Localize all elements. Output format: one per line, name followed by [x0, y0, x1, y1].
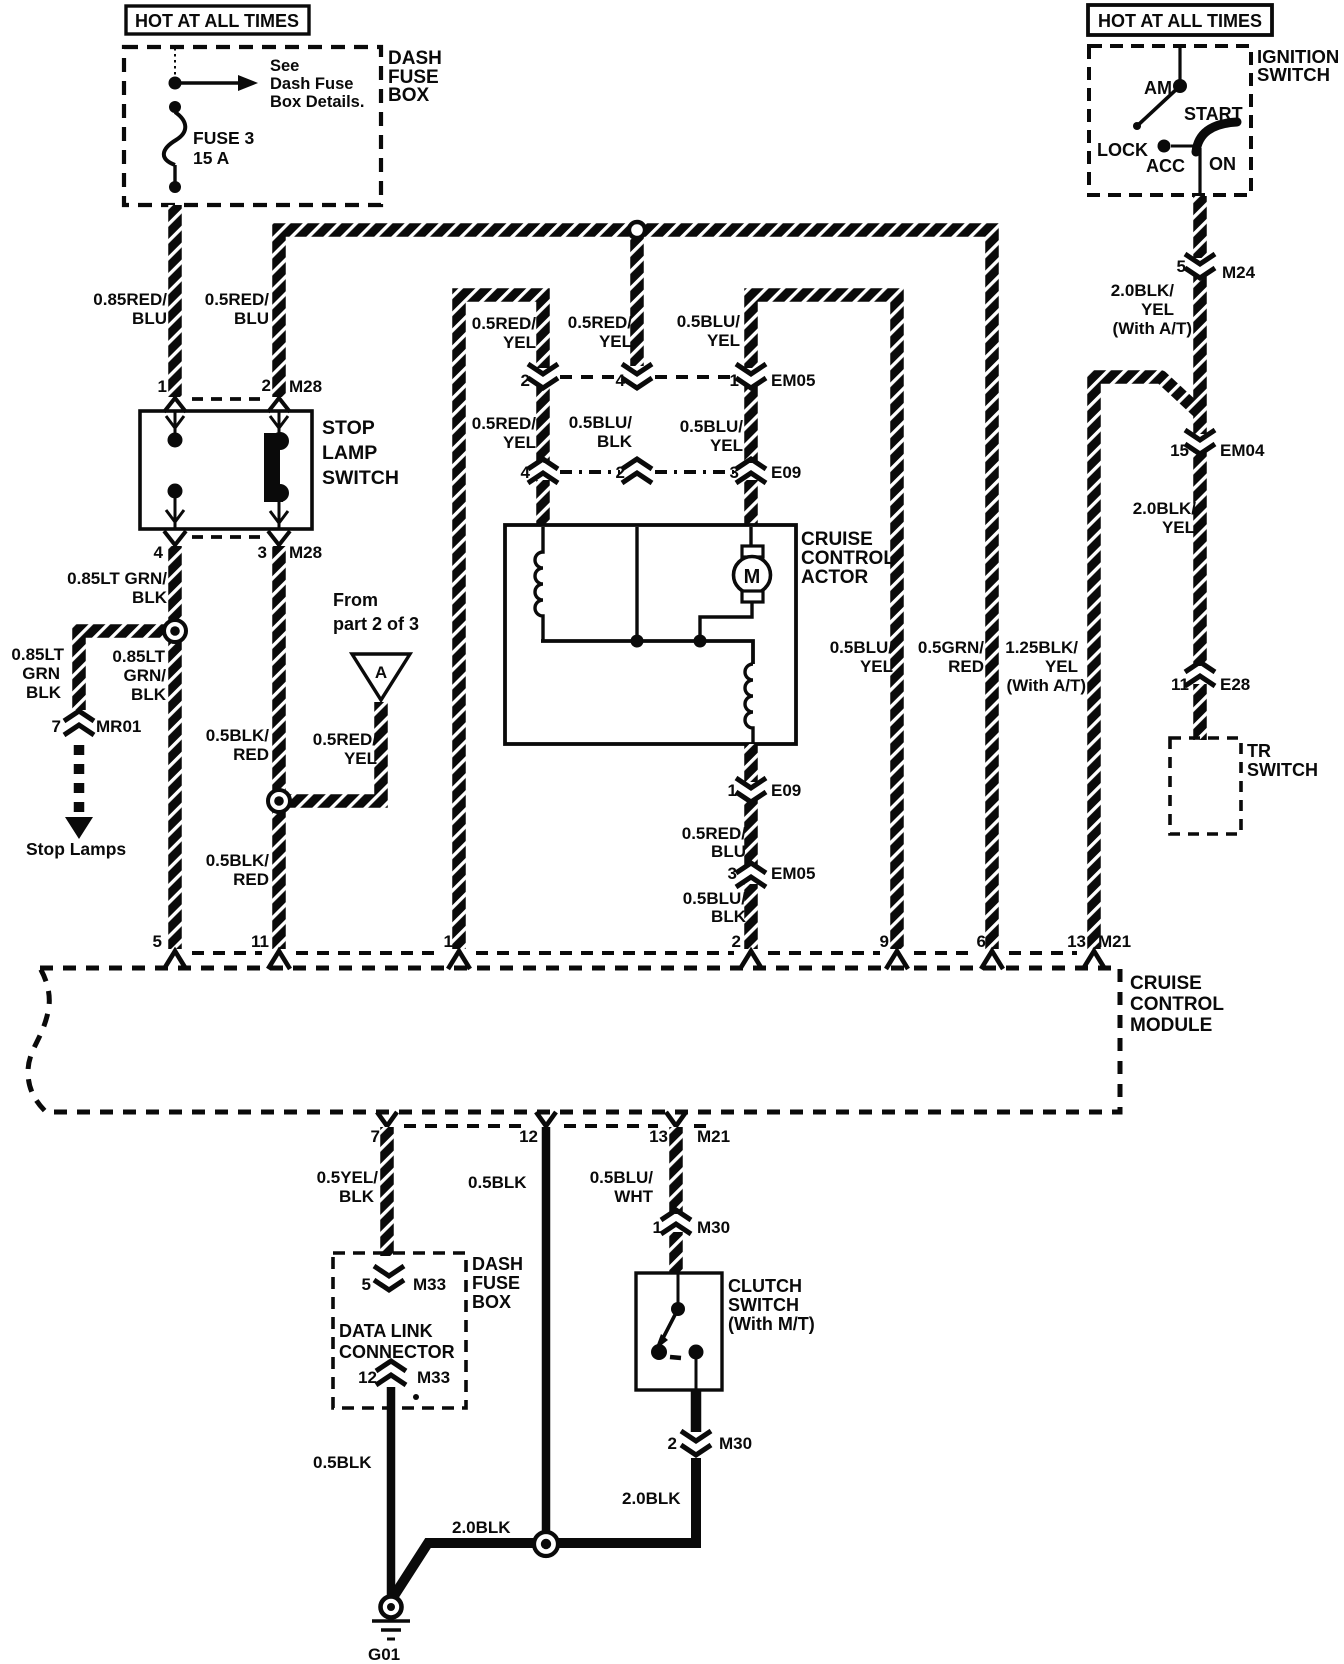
svg-text:0.5BLK/: 0.5BLK/ [206, 851, 270, 870]
connector E28 pin 11 chevron [1185, 662, 1215, 686]
svg-text:part 2 of 3: part 2 of 3 [333, 614, 419, 634]
connector M33 pin 5 chevron [374, 1266, 404, 1290]
module pin 13 chevron [1083, 951, 1105, 969]
svg-text:E09: E09 [771, 463, 801, 482]
svg-text:RED: RED [233, 745, 269, 764]
svg-text:WHT: WHT [614, 1187, 653, 1206]
wire: EM05 pin 1 up and over to module pin 9 [751, 295, 897, 949]
svg-text:M28: M28 [289, 377, 322, 396]
svg-text:2: 2 [732, 932, 741, 951]
svg-text:0.5RED/: 0.5RED/ [472, 414, 537, 433]
svg-text:7: 7 [52, 717, 61, 736]
module bottom connector dashed row [404, 1124, 708, 1128]
module bottom pin 13 chevron [666, 1112, 686, 1126]
svg-text:CONNECTOR: CONNECTOR [339, 1342, 455, 1362]
svg-text:(With A/T): (With A/T) [1113, 319, 1192, 338]
svg-text:EM05: EM05 [771, 371, 815, 390]
wire label 0.85RED/BLU [93, 290, 167, 328]
module pin 9 chevron [886, 951, 908, 969]
labels 3 EM05 [728, 864, 816, 883]
svg-text:BLU: BLU [234, 309, 269, 328]
wire label 0.85LT GRN BLK (far left) [11, 645, 64, 702]
svg-text:12: 12 [519, 1127, 538, 1146]
wire labels between EM05 and E09 rows [472, 413, 744, 455]
speck near M33 [413, 1394, 419, 1400]
stop lamp switch contacts and bar [168, 432, 290, 502]
actor internal: bus line [541, 641, 753, 664]
svg-text:BLK: BLK [711, 907, 747, 926]
connector pin 4 chevron (M28) [164, 531, 186, 545]
connector M24 pin 5 chevron [1185, 254, 1215, 278]
wire: from part-2 triangle down and left to pin-11 wire [288, 702, 381, 801]
from part 2 of 3 note [333, 590, 419, 634]
node: bullseye junction on pin-5 wire [164, 620, 186, 642]
svg-text:SWITCH: SWITCH [1247, 760, 1318, 780]
TR switch dashed box [1170, 738, 1241, 834]
wire: junction ring down to connector EM05 pin 4 [630, 230, 644, 366]
svg-text:0.5BLK: 0.5BLK [313, 1453, 372, 1472]
labels 5 M33 [362, 1275, 447, 1294]
svg-text:YEL: YEL [344, 749, 377, 768]
svg-text:5: 5 [153, 932, 162, 951]
ignition switch internals [1097, 46, 1243, 196]
svg-text:2.0BLK: 2.0BLK [452, 1518, 511, 1537]
connector EM05 row dashed line [560, 375, 734, 379]
svg-text:0.5BLU/: 0.5BLU/ [569, 413, 633, 432]
wire label 2.0BLK/YEL (With A/T) [1111, 281, 1192, 338]
svg-text:13: 13 [649, 1127, 668, 1146]
svg-text:CLUTCH: CLUTCH [728, 1276, 802, 1296]
svg-text:GRN/: GRN/ [124, 666, 167, 685]
wire: fuse output down to stop lamp switch pin 1 [168, 205, 182, 397]
data link connector label [339, 1321, 455, 1362]
svg-text:2.0BLK: 2.0BLK [622, 1489, 681, 1508]
connector E09 pin 3 chevron [736, 459, 766, 483]
wire: top horizontal bus from stop lamp switch pin 2 to module pin 6 [279, 230, 992, 949]
labels 2 M30 [668, 1434, 753, 1453]
labels 12 M33 [358, 1368, 450, 1387]
node: ring junction on ground bus [534, 1532, 558, 1556]
connector M30 pin 2 chevron [681, 1431, 711, 1455]
svg-text:DASH: DASH [472, 1254, 523, 1274]
fuse FUSE 3 15 A [164, 101, 255, 193]
see dash fuse box details note [169, 48, 365, 111]
cruise control module dashed outline [28, 968, 1120, 1112]
svg-text:4: 4 [521, 463, 531, 482]
connector EM04 pin 15 chevron [1185, 430, 1215, 454]
svg-text:(With M/T): (With M/T) [728, 1314, 815, 1334]
svg-text:M21: M21 [697, 1127, 730, 1146]
svg-text:0.85LT GRN/: 0.85LT GRN/ [67, 569, 167, 588]
wire label 0.5YEL/BLK [317, 1168, 379, 1206]
module pin 6 chevron [981, 951, 1003, 969]
svg-text:Stop Lamps: Stop Lamps [26, 839, 126, 859]
connector M28 top dashed row [192, 397, 262, 401]
connector M30 pin 1 chevron [661, 1210, 691, 1234]
wire label 0.5BLU/YEL (pin 9 wire) [830, 638, 894, 676]
svg-text:15: 15 [1170, 441, 1189, 460]
svg-text:YEL: YEL [710, 436, 743, 455]
connector EM05 pin 1 chevron [736, 364, 766, 388]
svg-text:1: 1 [728, 781, 737, 800]
svg-text:3: 3 [258, 543, 267, 562]
dash fuse box label [388, 48, 442, 106]
wire label 0.5RED/BLU [205, 290, 270, 328]
svg-text:RED: RED [948, 657, 984, 676]
svg-text:RED: RED [233, 870, 269, 889]
svg-text:YEL: YEL [1162, 518, 1195, 537]
svg-text:LOCK: LOCK [1097, 140, 1148, 160]
svg-text:11: 11 [1171, 675, 1189, 694]
actor internal: center wire [635, 527, 638, 641]
svg-text:2.0BLK/: 2.0BLK/ [1111, 281, 1175, 300]
svg-text:M24: M24 [1222, 263, 1256, 282]
wire label 0.85LT GRN/BLK (above junction) [67, 569, 168, 607]
svg-text:0.5GRN/: 0.5GRN/ [918, 638, 984, 657]
node: bullseye junction on pin-11 wire [268, 790, 290, 812]
svg-text:BOX: BOX [388, 85, 430, 106]
svg-text:2.0BLK/: 2.0BLK/ [1133, 499, 1197, 518]
svg-text:START: START [1184, 104, 1243, 124]
svg-text:0.5BLK/: 0.5BLK/ [206, 726, 270, 745]
svg-text:ACC: ACC [1146, 156, 1185, 176]
svg-text:0.5BLU/: 0.5BLU/ [590, 1168, 654, 1187]
svg-text:2: 2 [521, 371, 530, 390]
cruise control actor box [505, 525, 796, 744]
svg-text:M33: M33 [413, 1275, 446, 1294]
wire label 0.5RED/YEL (branch) [313, 730, 378, 768]
wire: 2.0BLK ground bus [392, 1458, 696, 1599]
stop lamp switch box [140, 411, 312, 529]
pin labels 4 3 M28 [154, 543, 323, 562]
wire label 2.0BLK/YEL [1133, 499, 1197, 537]
wire label 0.5RED/BLU [682, 824, 747, 861]
connector pin 2 chevron (M28) [268, 398, 290, 412]
ground G01 [368, 1597, 410, 1664]
svg-text:HOT AT ALL TIMES: HOT AT ALL TIMES [1098, 11, 1262, 31]
svg-text:E09: E09 [771, 781, 801, 800]
wire: ignition switch down to M24 [1193, 196, 1207, 258]
module bottom pin 7 chevron [377, 1112, 397, 1126]
svg-text:BLK: BLK [131, 685, 167, 704]
svg-text:1.25BLK/: 1.25BLK/ [1005, 638, 1078, 657]
TR switch label [1247, 741, 1318, 780]
connector E09 row dash-dot line [560, 470, 734, 474]
svg-text:DATA LINK: DATA LINK [339, 1321, 433, 1341]
actor internal: left coil L1 [535, 527, 543, 641]
clutch switch box [636, 1273, 722, 1390]
wire: actor output down to E09 pin 1 [744, 744, 758, 782]
wire: stop lamp switch pin 4 down to module pin 5 [168, 546, 182, 949]
svg-text:STOP: STOP [322, 417, 375, 439]
arrow to stop lamps [65, 817, 93, 839]
wire label 0.5BLU/WHT [590, 1168, 654, 1206]
svg-text:0.5RED/: 0.5RED/ [205, 290, 270, 309]
svg-text:A: A [375, 663, 387, 682]
svg-text:Dash Fuse: Dash Fuse [270, 75, 353, 93]
svg-text:12: 12 [358, 1368, 377, 1387]
svg-text:YEL: YEL [1045, 657, 1078, 676]
svg-text:3: 3 [728, 864, 737, 883]
connector EM05 pin 4 chevron [622, 364, 652, 388]
labels 5 M24 [1177, 257, 1256, 282]
svg-text:5: 5 [1177, 257, 1186, 276]
svg-text:From: From [333, 590, 378, 610]
svg-text:BLK: BLK [26, 683, 62, 702]
svg-text:0.5BLU/: 0.5BLU/ [683, 889, 747, 908]
connector MR01 pin 7 chevron [64, 711, 94, 735]
svg-text:0.5BLU/: 0.5BLU/ [680, 417, 744, 436]
svg-text:0.5YEL/: 0.5YEL/ [317, 1168, 379, 1187]
module top pin labels [153, 932, 1132, 951]
wire: branch to stop lamps connector MR01 [79, 631, 168, 710]
data link connector dashed box [333, 1253, 466, 1408]
connector M28 bottom dashed row [192, 535, 262, 539]
wire: ignition branch down to module pin 13 [1094, 377, 1202, 949]
hot-at-all-times label (left) [126, 6, 309, 34]
labels 1 M30 [653, 1218, 731, 1237]
svg-text:Box Details.: Box Details. [270, 93, 364, 111]
svg-text:GRN: GRN [22, 664, 60, 683]
svg-text:M21: M21 [1098, 932, 1131, 951]
ignition switch label [1257, 46, 1339, 85]
wire label 0.85LT GRN/ BLK (middle) [112, 647, 166, 704]
svg-text:(With A/T): (With A/T) [1007, 676, 1086, 695]
svg-text:CRUISE: CRUISE [801, 529, 873, 550]
svg-text:G01: G01 [368, 1645, 400, 1664]
wire: data link pin 12 to ground G01 [387, 1387, 396, 1598]
svg-text:6: 6 [977, 932, 986, 951]
wire: module pin 1 up and over to EM05 pin 2 [459, 295, 543, 949]
svg-text:1: 1 [653, 1218, 662, 1237]
clutch switch internals [651, 1273, 704, 1390]
wire label 0.5BLK/RED (lower) [206, 851, 270, 889]
svg-text:13: 13 [1067, 932, 1086, 951]
svg-text:BLU: BLU [711, 842, 746, 861]
svg-text:0.85RED/: 0.85RED/ [93, 290, 167, 309]
svg-text:YEL: YEL [1141, 300, 1174, 319]
connector E09 pin 4 chevron [528, 459, 558, 483]
svg-text:CONTROL: CONTROL [1130, 994, 1224, 1015]
actor internal: motor M [700, 527, 771, 641]
wire: dashed stub to stop lamps [74, 745, 85, 816]
connector pin 3 chevron (M28) [268, 531, 290, 545]
wire: module pin 12 down to 2.0BLK bus [542, 1127, 551, 1540]
svg-text:0.5RED/: 0.5RED/ [568, 313, 633, 332]
node: junction ring on top bus [629, 222, 645, 238]
svg-text:YEL: YEL [860, 657, 893, 676]
svg-text:SWITCH: SWITCH [1257, 64, 1330, 85]
svg-text:2: 2 [668, 1434, 677, 1453]
connector M33 pin 12 chevron [376, 1361, 406, 1385]
ignition switch dashed box [1089, 46, 1251, 195]
stop lamp switch internals [166, 412, 288, 528]
svg-text:4: 4 [616, 371, 626, 390]
svg-text:BOX: BOX [472, 1292, 511, 1312]
svg-text:0.5BLU/: 0.5BLU/ [830, 638, 894, 657]
module pin 11 chevron [268, 951, 290, 969]
svg-text:SWITCH: SWITCH [728, 1295, 799, 1315]
svg-text:M33: M33 [417, 1368, 450, 1387]
svg-text:YEL: YEL [599, 332, 632, 351]
svg-text:1: 1 [444, 932, 453, 951]
labels 1 E09 [728, 781, 802, 800]
wire label 0.5BLU/BLK [683, 889, 747, 926]
svg-text:MODULE: MODULE [1130, 1015, 1212, 1036]
svg-text:2: 2 [262, 376, 271, 395]
svg-text:3: 3 [730, 463, 739, 482]
svg-text:0.5BLK: 0.5BLK [468, 1173, 527, 1192]
svg-text:LAMP: LAMP [322, 442, 377, 464]
svg-text:BLK: BLK [339, 1187, 375, 1206]
pin labels 1 2 M28 [158, 376, 323, 396]
svg-text:EM04: EM04 [1220, 441, 1265, 460]
svg-text:M28: M28 [289, 543, 322, 562]
clutch switch label [728, 1276, 815, 1334]
svg-text:1: 1 [158, 377, 167, 396]
svg-text:See: See [270, 57, 299, 75]
svg-text:M: M [744, 566, 761, 588]
module pin 5 chevron [164, 951, 186, 969]
svg-text:11: 11 [251, 932, 269, 951]
dash fuse box label (lower) [472, 1254, 523, 1312]
svg-text:15 A: 15 A [193, 148, 230, 168]
svg-text:0.5BLU/: 0.5BLU/ [677, 312, 741, 331]
svg-text:FUSE: FUSE [472, 1273, 520, 1293]
svg-text:EM05: EM05 [771, 864, 815, 883]
labels 15 EM04 [1170, 441, 1265, 460]
connector E09 pin 1 chevron [736, 778, 766, 802]
stop lamp switch label [322, 417, 399, 489]
cruise control module label [1130, 973, 1224, 1036]
svg-text:M30: M30 [719, 1434, 752, 1453]
cruise control actor label [801, 529, 895, 588]
svg-text:YEL: YEL [707, 331, 740, 350]
svg-text:0.5RED/: 0.5RED/ [313, 730, 378, 749]
wire: stop lamp switch pin 3 down to module pin 11 [272, 546, 286, 949]
wire label 1.25BLK/YEL (With A/T) (pin 13 wire) [1005, 638, 1086, 695]
svg-text:TR: TR [1247, 741, 1271, 761]
svg-text:9: 9 [880, 932, 889, 951]
svg-text:2: 2 [616, 463, 625, 482]
hot-at-all-times label (right) [1088, 5, 1272, 35]
svg-text:BLK: BLK [597, 432, 633, 451]
svg-text:YEL: YEL [503, 333, 536, 352]
svg-text:FUSE 3: FUSE 3 [193, 128, 255, 148]
wire: module pin 13 down to M30 [669, 1127, 683, 1214]
EM05 row labels [521, 371, 816, 390]
svg-text:0.5RED/: 0.5RED/ [682, 824, 747, 843]
svg-text:E28: E28 [1220, 675, 1250, 694]
connector E09 pin 2 chevron [622, 459, 652, 483]
E09 row labels [521, 463, 802, 482]
wire labels between top bus and EM05 row [472, 312, 741, 352]
actor internal: right coil L2 [745, 664, 753, 744]
svg-text:MR01: MR01 [96, 717, 141, 736]
labels 11 E28 [1171, 675, 1250, 694]
svg-text:0.85LT: 0.85LT [112, 647, 165, 666]
svg-text:5: 5 [362, 1275, 371, 1294]
wire label 0.5GRN/RED (pin 6 wire) [918, 638, 984, 676]
svg-text:SWITCH: SWITCH [322, 467, 399, 489]
svg-text:BLK: BLK [132, 588, 168, 607]
svg-text:HOT AT ALL TIMES: HOT AT ALL TIMES [135, 11, 299, 31]
wire label 0.5BLK/RED (upper) [206, 726, 270, 764]
node A: off-page triangle [352, 654, 410, 700]
svg-text:CONTROL: CONTROL [801, 548, 895, 569]
svg-text:0.85LT: 0.85LT [11, 645, 64, 664]
module connector dashed row [192, 951, 1077, 955]
svg-text:1: 1 [730, 371, 739, 390]
svg-text:ON: ON [1209, 154, 1236, 174]
module bottom pin 12 chevron [536, 1112, 556, 1126]
svg-text:0.5RED/: 0.5RED/ [472, 314, 537, 333]
connector pin 1 chevron (M28) [164, 398, 186, 412]
module pin 1 chevron [448, 951, 470, 969]
actor internal: junction dots [631, 635, 644, 648]
svg-text:7: 7 [371, 1127, 380, 1146]
svg-text:BLU: BLU [132, 309, 167, 328]
wire: module pin 7 down to data link connector [380, 1127, 394, 1256]
connector EM05 pin 3 chevron [736, 863, 766, 887]
pin labels 7 MR01 [52, 717, 142, 736]
svg-text:CRUISE: CRUISE [1130, 973, 1202, 994]
svg-text:DASH: DASH [388, 48, 442, 69]
svg-text:4: 4 [154, 543, 164, 562]
svg-text:ACTOR: ACTOR [801, 567, 868, 588]
module pin 2 chevron [740, 951, 762, 969]
wire: clutch switch pin 2 down to M30 [691, 1390, 702, 1432]
module bottom pin labels [371, 1127, 731, 1146]
svg-text:M30: M30 [697, 1218, 730, 1237]
svg-text:YEL: YEL [503, 433, 536, 452]
dash fuse box (left, dashed outline) [124, 47, 381, 205]
connector EM05 pin 2 chevron [528, 364, 558, 388]
